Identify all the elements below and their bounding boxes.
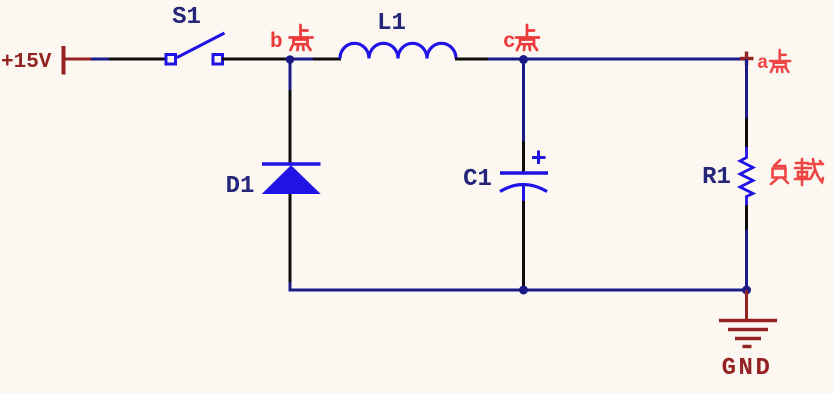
inductor L1 label — [377, 10, 406, 37]
svg-text:R1: R1 — [702, 164, 731, 191]
wire black switch to node b — [222, 58, 289, 61]
node c junction dot — [519, 55, 528, 64]
power +15V bar — [62, 46, 66, 75]
wire black resistor to bottom — [745, 205, 748, 231]
wire navy stub left — [91, 58, 110, 61]
svg-text:c: c — [503, 31, 516, 54]
diode D1 label — [226, 173, 255, 200]
svg-text:+15V: +15V — [1, 51, 52, 74]
capacitor C1 label — [463, 166, 492, 193]
svg-text:L1: L1 — [377, 10, 406, 37]
svg-text:a: a — [757, 52, 768, 74]
wire black b to diode — [289, 90, 292, 164]
wire black a to resistor — [745, 118, 748, 148]
switch S1 label — [172, 4, 201, 31]
ground GND label — [722, 355, 773, 382]
wire navy right of b — [290, 58, 314, 61]
capacitor C1 — [500, 151, 548, 203]
wire darkred from +15V bar — [64, 58, 92, 61]
svg-text:C1: C1 — [463, 166, 492, 193]
wire navy below a — [745, 59, 748, 119]
wire black c to capacitor — [522, 141, 525, 172]
switch S1 — [166, 33, 225, 64]
ground stub wire — [745, 290, 748, 320]
wire black capacitor to bottom rail — [522, 201, 525, 289]
diode D1 — [262, 164, 321, 194]
wire black inductor to c — [455, 58, 489, 61]
inductor L1 — [340, 43, 456, 58]
wire navy corner at bottom of diode column — [290, 282, 296, 290]
node a label — [757, 50, 790, 74]
node b junction dot — [286, 55, 295, 64]
svg-text:b: b — [270, 31, 283, 54]
node b label — [270, 25, 313, 54]
wire black diode to bottom rail — [289, 194, 292, 283]
load label 负载 — [771, 159, 823, 185]
svg-text:D1: D1 — [226, 173, 255, 200]
svg-text:GND: GND — [722, 355, 773, 382]
ground symbol — [719, 321, 777, 347]
wire navy to node c and node a — [488, 58, 748, 61]
resistor R1 label — [702, 164, 731, 191]
resistor R1 — [740, 147, 753, 206]
wire navy to bottom junction — [745, 230, 748, 290]
wire black to switch — [109, 58, 167, 61]
wire navy below b — [289, 59, 292, 91]
wire black b to inductor — [313, 58, 341, 61]
svg-text:S1: S1 — [172, 4, 201, 31]
node c label — [503, 25, 539, 54]
wire navy bottom rail — [289, 289, 749, 292]
wire navy below c — [522, 59, 525, 142]
junction dot below resistor — [742, 286, 751, 295]
node a darkred cross marker — [740, 52, 754, 66]
junction dot below capacitor — [519, 286, 528, 295]
power +15V label — [1, 51, 52, 74]
